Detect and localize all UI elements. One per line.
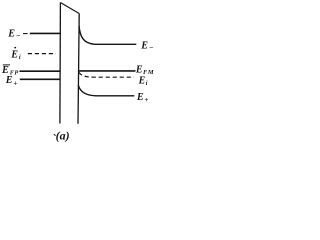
svg-text:+: + xyxy=(144,96,148,104)
svg-text:E: E xyxy=(5,75,13,86)
level line E- left xyxy=(30,32,61,34)
svg-text:E: E xyxy=(140,41,148,52)
svg-text:i: i xyxy=(19,54,21,61)
caption (a) xyxy=(54,129,70,143)
svg-text:E: E xyxy=(7,29,15,40)
label E_FP left with overbar xyxy=(1,65,19,77)
label E- right xyxy=(140,41,153,52)
band curve E- right xyxy=(79,26,136,44)
label E_FM right xyxy=(135,64,154,76)
svg-text:E: E xyxy=(135,64,143,75)
svg-text:–: – xyxy=(16,31,21,39)
svg-text:E: E xyxy=(10,49,18,60)
label E+ right xyxy=(136,92,149,104)
level line E+ left xyxy=(20,78,61,80)
label E_i right xyxy=(138,75,148,87)
svg-text:i: i xyxy=(146,80,148,87)
svg-text:E: E xyxy=(136,92,144,103)
svg-text:E: E xyxy=(138,75,146,86)
svg-text:(a): (a) xyxy=(56,129,70,143)
band curve E+ right xyxy=(78,85,134,96)
barrier top slant xyxy=(60,3,79,14)
level line E_FP left xyxy=(20,70,61,72)
barrier left edge xyxy=(59,3,62,124)
svg-text:+: + xyxy=(13,79,17,87)
label E-dot-i left xyxy=(10,47,21,61)
level line E_FM right xyxy=(79,70,136,72)
leader dash for E- left xyxy=(23,33,28,35)
svg-text:–: – xyxy=(149,43,154,51)
level line E-dot-i dashed left xyxy=(28,53,56,55)
band curve E_i dashed right xyxy=(79,72,134,77)
label E- left xyxy=(7,29,20,40)
label E+ left xyxy=(5,75,17,87)
barrier right edge xyxy=(78,14,79,124)
